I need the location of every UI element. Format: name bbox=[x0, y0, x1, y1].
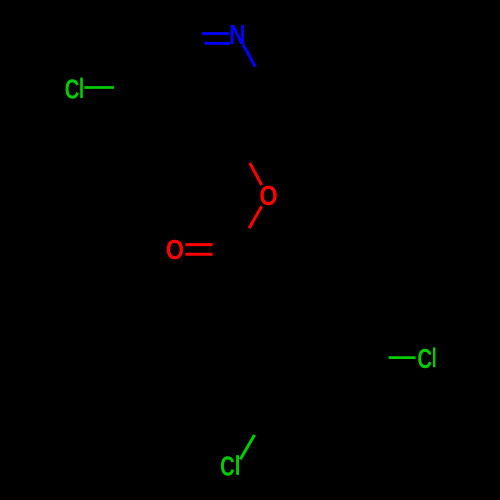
bond C7=O upper line (red half) bbox=[185, 243, 212, 246]
svg-text:C: C bbox=[220, 451, 235, 482]
bond C3'-Cl (green half, right chlorine) bbox=[389, 356, 416, 359]
atom label Cl (right chlorine): C glyph bbox=[417, 344, 432, 375]
atom label O (carbonyl oxygen) bbox=[166, 235, 184, 265]
svg-text:C: C bbox=[417, 344, 432, 375]
atom label Cl (bottom chlorine): C glyph bbox=[220, 451, 235, 482]
atom label Cl (right chlorine): l glyph bbox=[433, 347, 435, 367]
bond C5'-Cl (green half, bottom chlorine) bbox=[240, 435, 254, 459]
atom label Cl (bottom chlorine): l glyph bbox=[236, 455, 239, 475]
svg-text:O: O bbox=[259, 181, 277, 211]
atom label N1 (pyridine nitrogen) bbox=[229, 20, 245, 51]
atom label O (ester oxygen) bbox=[259, 181, 277, 211]
atom label Cl (top-left chlorine): C glyph bbox=[65, 74, 80, 105]
bond C3-O ester (red half) bbox=[250, 163, 262, 185]
bond N1=C2 outer line (blue half) bbox=[202, 32, 229, 35]
atom label Cl (top-left chlorine): l glyph bbox=[80, 78, 83, 98]
svg-text:C: C bbox=[65, 74, 80, 105]
svg-text:N: N bbox=[229, 20, 245, 51]
bond C7=O lower line (red half) bbox=[185, 253, 212, 256]
bond O-C7 ester (red half) bbox=[249, 206, 262, 228]
bond C5-Cl (green half) bbox=[84, 86, 114, 89]
bond N1-C6 (blue half) bbox=[243, 45, 255, 67]
svg-text:O: O bbox=[166, 235, 184, 265]
bond N1=C2 inner line (blue half) bbox=[205, 42, 231, 45]
